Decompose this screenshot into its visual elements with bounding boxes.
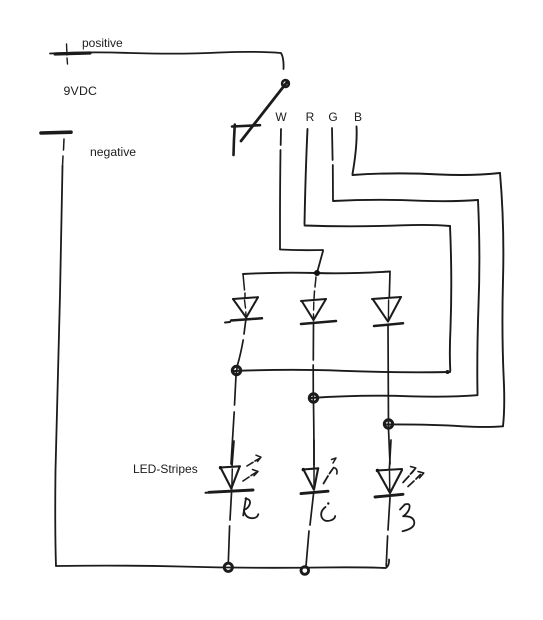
svg-text:positive: positive	[82, 36, 123, 50]
svg-text:negative: negative	[90, 145, 136, 159]
svg-text:G: G	[328, 110, 337, 124]
svg-text:B: B	[354, 110, 362, 124]
svg-text:9VDC: 9VDC	[64, 84, 98, 98]
svg-text:W: W	[275, 110, 287, 124]
svg-text:R: R	[306, 110, 315, 124]
svg-text:LED-Stripes: LED-Stripes	[133, 462, 198, 476]
